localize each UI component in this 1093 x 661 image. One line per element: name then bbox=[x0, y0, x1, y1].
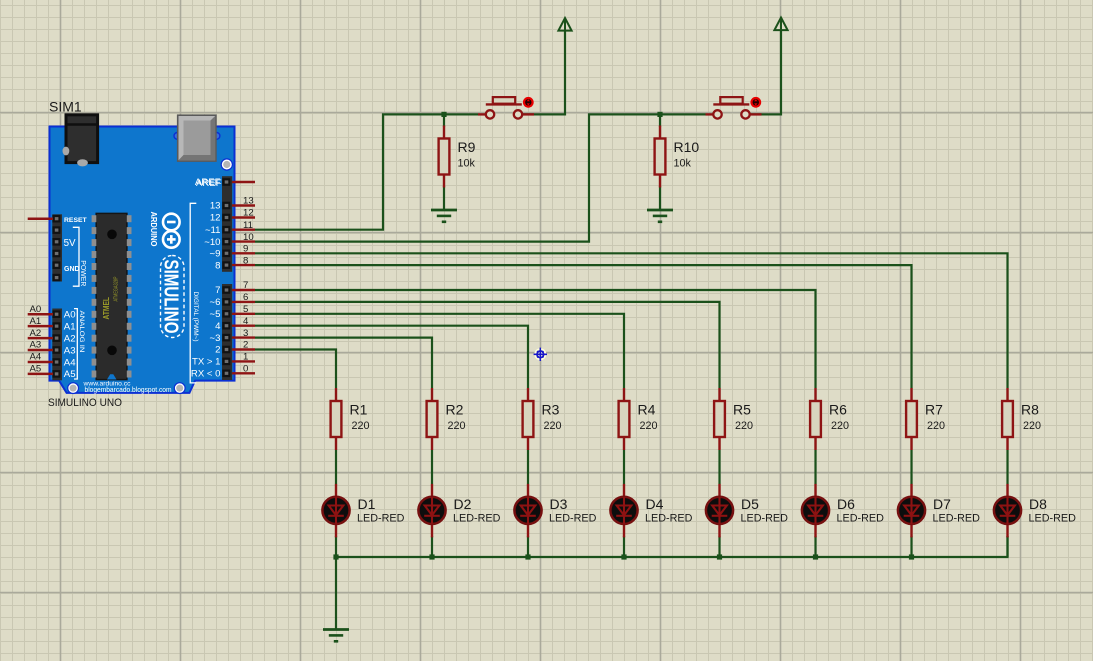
svg-text:2: 2 bbox=[215, 345, 220, 356]
svg-text:LED-RED: LED-RED bbox=[1029, 513, 1077, 525]
wire pin7 to R6 bbox=[255, 290, 816, 388]
svg-text:3: 3 bbox=[243, 328, 248, 339]
wire pin4 to R3 bbox=[255, 326, 528, 388]
svg-text:~3: ~3 bbox=[210, 333, 221, 344]
svg-text:A0: A0 bbox=[64, 310, 76, 321]
svg-text:8: 8 bbox=[243, 255, 248, 266]
pin stub 7 bbox=[232, 289, 255, 291]
pin stub A0 bbox=[28, 313, 53, 316]
svg-text:GND: GND bbox=[64, 266, 80, 273]
DIGITAL PWM bracket bbox=[190, 203, 196, 383]
junction bus node D2 bbox=[429, 554, 434, 559]
svg-text:A4: A4 bbox=[64, 357, 76, 368]
pin stub 5 bbox=[232, 313, 255, 315]
svg-text:A3: A3 bbox=[30, 340, 42, 351]
ground symbol below R10 bbox=[647, 210, 673, 222]
svg-text:SIMULINO UNO: SIMULINO UNO bbox=[48, 397, 122, 409]
wire R7 to D7 bbox=[910, 450, 912, 484]
pin stub 6 bbox=[232, 301, 255, 303]
svg-text:R10: R10 bbox=[674, 139, 700, 155]
pin stub 3 bbox=[232, 336, 255, 338]
SIMULINO text bbox=[159, 256, 184, 338]
LED D6 bbox=[802, 484, 884, 538]
wire R3 to D3 bbox=[527, 450, 529, 484]
wire R9 junction down to ground bbox=[443, 114, 445, 127]
svg-text:11: 11 bbox=[243, 220, 253, 231]
wire pin5 to R4 bbox=[255, 314, 624, 388]
junction bus node D5 bbox=[717, 554, 722, 559]
svg-text:SIMULINO: SIMULINO bbox=[159, 260, 181, 334]
resistor R5 bbox=[714, 388, 753, 450]
push button 2 bbox=[706, 97, 762, 119]
svg-text:R1: R1 bbox=[350, 402, 368, 418]
svg-text:R8: R8 bbox=[1021, 402, 1039, 418]
svg-text:D5: D5 bbox=[741, 496, 759, 512]
analog header bbox=[52, 309, 62, 381]
LED D8 bbox=[994, 484, 1076, 538]
svg-text:A1: A1 bbox=[30, 316, 42, 327]
wire D1 to ground bus bbox=[335, 536, 337, 557]
svg-text:7: 7 bbox=[243, 280, 248, 291]
digital header 0-7 bbox=[222, 284, 232, 380]
svg-text:10: 10 bbox=[243, 232, 254, 243]
svg-text:ANALOG IN: ANALOG IN bbox=[78, 311, 85, 353]
pin stub 1 bbox=[232, 360, 255, 362]
wire R10 junction down to ground bbox=[659, 114, 661, 127]
svg-text:9: 9 bbox=[243, 244, 248, 255]
ground bus wire bbox=[336, 536, 1008, 557]
svg-text:ARDUINO: ARDUINO bbox=[149, 212, 158, 247]
svg-text:D6: D6 bbox=[837, 496, 855, 512]
junction bus node D7 bbox=[909, 554, 914, 559]
wire R2 to D2 bbox=[431, 450, 433, 484]
wire R5 to D5 bbox=[718, 450, 720, 484]
resistor R4 bbox=[619, 388, 658, 450]
resistor R7 bbox=[906, 388, 945, 450]
power symbol VCC 2 bbox=[774, 18, 787, 31]
wire pin6 to R5 bbox=[255, 302, 720, 388]
pin stub RESET bbox=[28, 217, 53, 220]
mounting hole bottom left bbox=[68, 383, 79, 394]
svg-text:4: 4 bbox=[243, 316, 249, 327]
wire D6 to ground bus bbox=[814, 536, 816, 557]
resistor R3 bbox=[523, 388, 562, 450]
wire D3 to ground bus bbox=[527, 536, 529, 557]
origin crosshair marker bbox=[534, 348, 547, 361]
pin stub AREF bbox=[232, 181, 255, 183]
svg-text:R4: R4 bbox=[638, 402, 656, 418]
svg-text:LED-RED: LED-RED bbox=[549, 513, 597, 525]
svg-text:8: 8 bbox=[215, 260, 220, 271]
svg-text:12: 12 bbox=[243, 208, 254, 219]
pin stub 11 bbox=[232, 228, 255, 230]
svg-text:10k: 10k bbox=[674, 158, 692, 170]
svg-text:D2: D2 bbox=[454, 496, 472, 512]
wire D8 to ground bus bbox=[1006, 536, 1008, 557]
svg-text:SIM1: SIM1 bbox=[49, 99, 82, 115]
svg-text:ATMEGA328P: ATMEGA328P bbox=[113, 276, 119, 301]
junction node R9/button1 bbox=[441, 112, 446, 117]
svg-text:1: 1 bbox=[243, 352, 248, 363]
svg-text:~5: ~5 bbox=[210, 309, 221, 320]
wire pin8 to R7 bbox=[255, 265, 912, 388]
pin stub 8 bbox=[232, 264, 255, 266]
mounting hole bottom right bbox=[174, 383, 185, 394]
resistor R1 bbox=[331, 388, 370, 450]
wire button2 right contact to power rail bbox=[751, 30, 782, 114]
svg-text:ATMEL: ATMEL bbox=[102, 297, 111, 320]
svg-text:RESET: RESET bbox=[64, 217, 88, 224]
junction bus node D1 bbox=[333, 554, 338, 559]
svg-text:220: 220 bbox=[448, 420, 466, 432]
svg-text:A2: A2 bbox=[30, 328, 42, 339]
svg-text:LED-RED: LED-RED bbox=[741, 513, 789, 525]
LED D7 bbox=[898, 484, 980, 538]
LED D5 bbox=[706, 484, 788, 538]
ANALOG IN bracket bbox=[74, 309, 77, 379]
junction bus node D6 bbox=[813, 554, 818, 559]
svg-text:A5: A5 bbox=[30, 364, 42, 375]
svg-text:R6: R6 bbox=[829, 402, 847, 418]
pin stub A5 bbox=[28, 373, 53, 376]
ground symbol below R9 bbox=[431, 210, 457, 222]
svg-text:LED-RED: LED-RED bbox=[357, 513, 405, 525]
resistor R9 bbox=[439, 126, 476, 188]
svg-text:0: 0 bbox=[243, 364, 248, 375]
svg-text:2: 2 bbox=[243, 340, 248, 351]
svg-text:~9: ~9 bbox=[210, 249, 221, 260]
svg-text:LED-RED: LED-RED bbox=[453, 513, 501, 525]
svg-text:5V: 5V bbox=[64, 238, 76, 249]
pin stub 0 bbox=[232, 372, 255, 374]
pin stub A2 bbox=[28, 337, 53, 340]
svg-text:~6: ~6 bbox=[210, 297, 221, 308]
svg-text:A4: A4 bbox=[30, 352, 42, 363]
svg-text:D3: D3 bbox=[550, 496, 568, 512]
resistor R10 bbox=[655, 126, 700, 188]
svg-text:R5: R5 bbox=[733, 402, 751, 418]
wire pin10 to button2 and R10 junction bbox=[255, 114, 706, 241]
power header bbox=[52, 214, 62, 281]
svg-text:POWER: POWER bbox=[79, 260, 88, 286]
svg-text:blogembarcado.blogspot.com: blogembarcado.blogspot.com bbox=[85, 385, 172, 394]
svg-text:LED-RED: LED-RED bbox=[645, 513, 693, 525]
resistor R8 bbox=[1002, 388, 1041, 450]
wire D7 to ground bus bbox=[910, 536, 912, 557]
wire bus to ground symbol bbox=[335, 557, 337, 630]
svg-text:A1: A1 bbox=[64, 321, 76, 332]
junction bus node D4 bbox=[621, 554, 626, 559]
push button 1 bbox=[478, 97, 534, 119]
pin stub 9 bbox=[232, 252, 255, 254]
svg-text:D4: D4 bbox=[646, 496, 664, 512]
LED D3 bbox=[514, 484, 596, 538]
power symbol VCC 1 bbox=[558, 18, 571, 31]
svg-text:AREF: AREF bbox=[196, 178, 222, 189]
svg-text:R9: R9 bbox=[458, 139, 476, 155]
pin stub A3 bbox=[28, 349, 53, 352]
LED D1 bbox=[322, 484, 404, 538]
wire R6 to D6 bbox=[814, 450, 816, 484]
pin stub 4 bbox=[232, 325, 255, 327]
svg-text:R3: R3 bbox=[542, 402, 560, 418]
wire pin2 to R1 bbox=[255, 350, 336, 389]
Arduino board SIM1 outline bbox=[50, 127, 235, 393]
wire R8 to D8 bbox=[1006, 450, 1008, 484]
wire button1 right contact to power rail bbox=[523, 31, 565, 115]
wire D4 to ground bus bbox=[623, 536, 625, 557]
LED D4 bbox=[610, 484, 692, 538]
pin stub 2 bbox=[232, 348, 255, 350]
wire D5 to ground bus bbox=[718, 536, 720, 557]
svg-text:220: 220 bbox=[1023, 420, 1041, 432]
svg-text:RX < 0: RX < 0 bbox=[191, 369, 221, 380]
wire D2 to ground bus bbox=[431, 536, 433, 557]
svg-text:D7: D7 bbox=[933, 496, 951, 512]
white pin labels right bbox=[191, 177, 221, 379]
svg-text:4: 4 bbox=[215, 321, 221, 332]
svg-text:~10: ~10 bbox=[204, 237, 220, 248]
svg-text:R7: R7 bbox=[925, 402, 943, 418]
svg-text:D8: D8 bbox=[1029, 496, 1047, 512]
ground symbol at bus end bbox=[323, 630, 349, 642]
wire pin3 to R2 bbox=[255, 338, 432, 388]
white labels analog header bbox=[64, 310, 76, 381]
svg-text:A5: A5 bbox=[64, 369, 76, 380]
svg-text:220: 220 bbox=[352, 420, 370, 432]
junction node R10/button2 bbox=[657, 112, 662, 117]
svg-text:220: 220 bbox=[735, 420, 753, 432]
pin stub 10 bbox=[232, 240, 255, 242]
svg-text:6: 6 bbox=[243, 292, 248, 303]
svg-text:R2: R2 bbox=[446, 402, 464, 418]
svg-text:LED-RED: LED-RED bbox=[837, 513, 885, 525]
svg-text:DIGITAL (PWM~): DIGITAL (PWM~) bbox=[192, 292, 199, 342]
svg-text:220: 220 bbox=[544, 420, 562, 432]
wire R1 to D1 bbox=[335, 450, 337, 484]
svg-text:5: 5 bbox=[243, 304, 248, 315]
wire pin11 to button1 and R9 junction bbox=[255, 114, 478, 229]
svg-text:220: 220 bbox=[831, 420, 849, 432]
pin stub A4 bbox=[28, 361, 53, 364]
svg-text:D1: D1 bbox=[358, 496, 376, 512]
svg-text:12: 12 bbox=[210, 213, 221, 224]
digital header 8-13 AREF bbox=[222, 176, 232, 272]
svg-text:~11: ~11 bbox=[205, 225, 221, 236]
mounting hole top right bbox=[221, 159, 232, 170]
svg-text:A2: A2 bbox=[64, 333, 76, 344]
junction bus node D3 bbox=[525, 554, 530, 559]
svg-text:13: 13 bbox=[243, 196, 254, 207]
svg-text:TX > 1: TX > 1 bbox=[192, 357, 221, 368]
svg-text:A3: A3 bbox=[64, 345, 76, 356]
POWER bracket bbox=[73, 227, 79, 286]
LED D2 bbox=[418, 484, 500, 538]
USB connector bbox=[174, 115, 220, 161]
svg-text:10k: 10k bbox=[458, 158, 476, 170]
ARDUINO logo bbox=[163, 214, 180, 248]
svg-text:A0: A0 bbox=[30, 304, 42, 315]
pin stub A1 bbox=[28, 325, 53, 328]
wire R4 to D4 bbox=[623, 450, 625, 484]
power barrel jack bbox=[63, 115, 98, 167]
svg-text:220: 220 bbox=[927, 420, 945, 432]
pin stub 13 bbox=[232, 204, 255, 206]
resistor R6 bbox=[810, 388, 849, 450]
resistor R2 bbox=[427, 388, 466, 450]
white labels power header bbox=[64, 217, 88, 273]
svg-text:7: 7 bbox=[215, 285, 220, 296]
svg-text:13: 13 bbox=[210, 201, 221, 212]
svg-text:220: 220 bbox=[640, 420, 658, 432]
svg-text:LED-RED: LED-RED bbox=[933, 513, 981, 525]
ATMEL ATMEGA328P chip U1 bbox=[92, 213, 132, 379]
pin stub 12 bbox=[232, 216, 255, 218]
wire pin9 to R8 bbox=[255, 253, 1008, 388]
